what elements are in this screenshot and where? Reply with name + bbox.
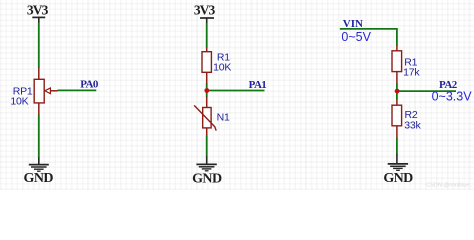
- resistor R1 pin 2 (circuit 3): [396, 72, 398, 84]
- svg-text:0~3.3V: 0~3.3V: [432, 89, 473, 103]
- thermistor N1 body: [194, 105, 216, 130]
- thermistor N1 pin 1: [206, 97, 208, 108]
- potentiometer RP1 wiper arrow pin 2: [45, 88, 58, 94]
- svg-text:3V3: 3V3: [27, 2, 49, 17]
- resistor R1 pin 1 (circuit 3): [396, 45, 398, 51]
- ground GND (circuit 2): [192, 156, 222, 186]
- svg-text:GND: GND: [192, 171, 222, 186]
- resistor R1 pin 2 (circuit 2): [206, 72, 208, 83]
- potentiometer RP1 body: [34, 79, 44, 103]
- svg-text:10K: 10K: [10, 96, 28, 108]
- svg-text:10K: 10K: [213, 62, 231, 74]
- resistor R2 body: [392, 105, 402, 126]
- resistor R1 pin 1 (circuit 2): [206, 47, 208, 52]
- svg-text:PA0: PA0: [80, 79, 99, 91]
- svg-text:3V3: 3V3: [194, 3, 216, 18]
- resistor R2 pin 2: [396, 126, 398, 138]
- wire 3V3 to RP1 pin 1: [38, 23, 40, 69]
- svg-text:CSDN @miniblue...: CSDN @miniblue...: [426, 183, 474, 189]
- ground GND (circuit 1): [24, 158, 54, 187]
- svg-text:0~5V: 0~5V: [341, 30, 371, 44]
- junction node (circuit 2): [204, 88, 209, 93]
- power port 3V3 (circuit 1): [27, 2, 49, 22]
- wire VIN to R1 (circuit 3): [340, 29, 397, 46]
- wire RP1 to GND: [38, 115, 40, 159]
- resistor R1 body (circuit 3): [392, 51, 402, 72]
- wire R1 to junction (circuit 2): [206, 83, 208, 97]
- ground GND (circuit 3): [383, 154, 413, 186]
- potentiometer RP1 pin 3: [38, 103, 40, 115]
- wire R2 to GND (circuit 3): [396, 138, 398, 155]
- resistor R1 body (circuit 2): [202, 52, 211, 73]
- potentiometer RP1 pin 1: [38, 68, 40, 80]
- wire R1 to junction (circuit 3): [396, 83, 398, 100]
- junction node (circuit 3): [395, 89, 400, 94]
- svg-text:33k: 33k: [404, 120, 421, 132]
- svg-text:GND: GND: [383, 171, 413, 186]
- wire wiper to PA0: [58, 89, 97, 91]
- power port 3V3 (circuit 2): [194, 3, 216, 23]
- wire N1 to GND (circuit 2): [206, 136, 208, 158]
- svg-text:GND: GND: [24, 171, 54, 186]
- svg-text:PA1: PA1: [249, 79, 267, 91]
- resistor R2 pin 1: [396, 99, 398, 105]
- wire junction to PA1: [207, 90, 265, 92]
- wire junction to PA2: [397, 90, 456, 92]
- svg-text:N1: N1: [217, 112, 230, 124]
- thermistor N1 pin 2: [206, 128, 208, 136]
- wire 3V3 to R1 (circuit 2): [206, 23, 208, 48]
- svg-text:17k: 17k: [403, 67, 420, 79]
